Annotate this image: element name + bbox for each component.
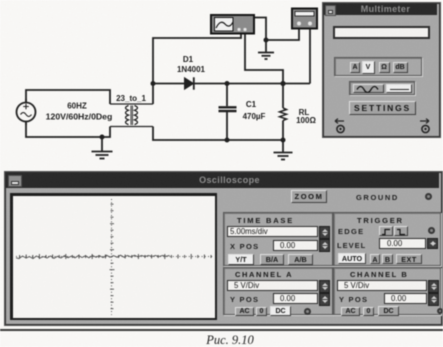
ground (instruments) xyxy=(258,53,274,60)
node junction at ground tap xyxy=(100,135,105,140)
scope screen xyxy=(10,193,217,320)
resistor RL xyxy=(280,108,287,121)
node capacitor bottom xyxy=(225,138,230,143)
CHANNEL B group xyxy=(333,267,441,315)
transformer T1 23_to_1 xyxy=(110,104,153,127)
TIME BASE group xyxy=(223,212,333,266)
CHANNEL A group xyxy=(223,267,333,315)
SETTINGS button xyxy=(349,101,416,115)
wire diode row xyxy=(153,83,310,85)
ground terminal xyxy=(425,193,432,200)
terminals xyxy=(332,117,432,135)
TRIGGER group xyxy=(333,212,441,266)
capacitor C1 xyxy=(219,107,237,111)
node scope/multimeter ground junction xyxy=(264,38,269,43)
mode buttons group xyxy=(334,57,422,76)
wire ground stem xyxy=(101,137,103,151)
wire ground stem RL xyxy=(282,140,284,152)
wire capacitor top lead xyxy=(226,84,228,107)
wire oscilloscope channel A probe xyxy=(245,34,283,84)
wire resistor bottom lead xyxy=(282,121,284,141)
wire source bottom rail xyxy=(26,122,110,138)
wire source top to transformer primary top xyxy=(26,90,110,104)
node resistor top xyxy=(280,81,285,86)
node junction secondary/diode xyxy=(151,81,156,86)
AC source V1 xyxy=(17,99,36,125)
ground (source loop) xyxy=(92,152,113,159)
wire multimeter plus lead xyxy=(309,29,311,84)
wire capacitor bottom lead xyxy=(226,112,228,140)
node capacitor top xyxy=(225,81,230,86)
display xyxy=(333,26,430,39)
wire scope ground to common ground xyxy=(254,18,266,53)
node resistor bottom / ground xyxy=(281,138,286,143)
diode D1 xyxy=(185,77,194,89)
wire secondary bottom to bottom rail xyxy=(153,127,283,141)
wire multimeter minus lead xyxy=(266,29,299,41)
ZOOM button xyxy=(291,190,327,203)
caption xyxy=(0,333,443,347)
AC/DC group xyxy=(349,81,415,95)
GROUND label xyxy=(356,193,399,202)
wire resistor top lead xyxy=(282,84,284,109)
oscilloscope icon xyxy=(211,15,254,34)
multimeter icon xyxy=(292,9,317,29)
ground (output) xyxy=(274,153,293,160)
caption rule xyxy=(0,329,443,331)
wire secondary top to diode row and top rail xyxy=(153,34,241,105)
